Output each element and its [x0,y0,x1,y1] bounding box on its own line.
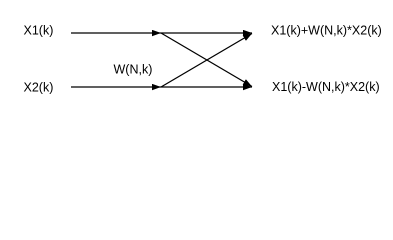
wire X1 input to mid node, arrow [71,32,161,34]
wire cross top mid node to bottom output, arrow [161,33,252,87]
svg-text:X2(k): X2(k) [24,80,54,94]
svg-text:W(N,k): W(N,k) [114,63,153,77]
svg-text:X1(k)+W(N,k)*X2(k): X1(k)+W(N,k)*X2(k) [271,24,382,38]
wire bottom mid node to bottom output, arrow [161,86,252,88]
wire cross bottom mid node to top output, arrow [161,34,252,88]
svg-text:X1(k): X1(k) [24,24,54,38]
wire X2 input to mid node, arrow [71,86,161,88]
wire top mid node to top output, arrow [161,32,252,34]
svg-text:X1(k)-W(N,k)*X2(k): X1(k)-W(N,k)*X2(k) [272,80,380,94]
